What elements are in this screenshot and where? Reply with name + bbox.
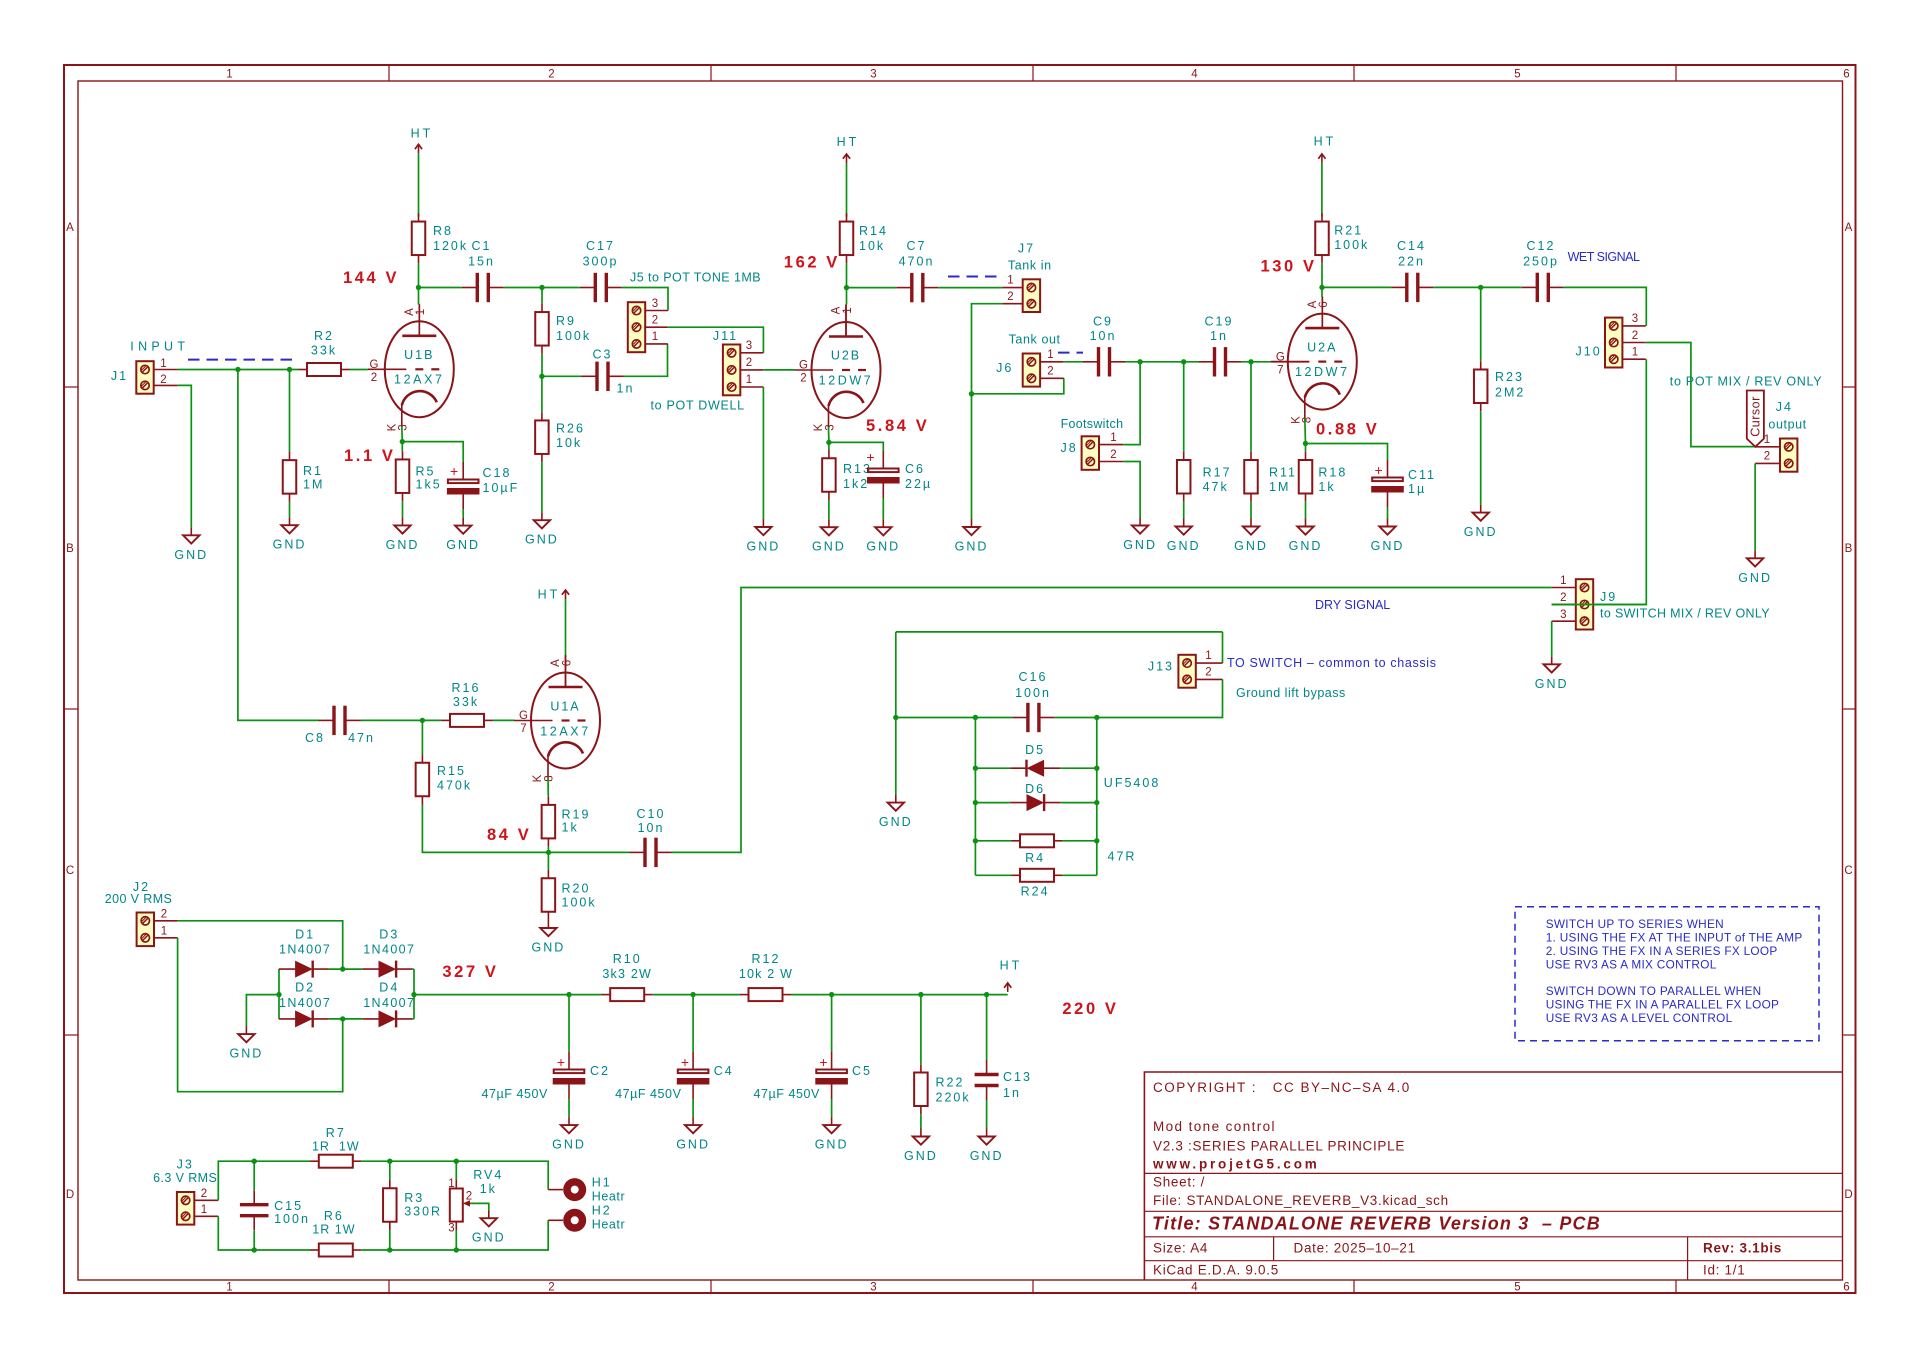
svg-text:Ground lift bypass: Ground lift bypass xyxy=(1236,686,1346,700)
wire R10 to R12 xyxy=(653,994,740,996)
svg-text:330R: 330R xyxy=(404,1205,442,1219)
svg-text:R10: R10 xyxy=(613,952,642,966)
svg-text:J3: J3 xyxy=(177,1158,194,1172)
wire R19 to node xyxy=(547,847,549,853)
wire J13 pin1 to chassis top xyxy=(1222,632,1224,663)
resistor R4 xyxy=(1012,834,1063,847)
wire R18 to ground xyxy=(1305,502,1307,519)
pin J13.1 xyxy=(1196,662,1223,664)
svg-text:1: 1 xyxy=(160,358,167,370)
svg-text:R7: R7 xyxy=(326,1126,346,1140)
pin J5.2 xyxy=(644,326,668,328)
svg-text:47µF 450V: 47µF 450V xyxy=(615,1087,681,1101)
wire to R24 xyxy=(975,874,1012,876)
wire R22 to ground xyxy=(920,1114,922,1128)
wire R12 to HT xyxy=(791,994,1008,996)
svg-text:D2: D2 xyxy=(295,981,315,995)
diode D6 xyxy=(1010,794,1060,811)
ground R26 xyxy=(525,512,559,547)
triode U2B xyxy=(795,305,881,428)
wire rail to R3 xyxy=(389,1161,391,1180)
triode U2A xyxy=(1271,296,1357,419)
svg-text:R19: R19 xyxy=(562,808,591,822)
svg-text:J13: J13 xyxy=(1148,660,1174,674)
svg-text:22µ: 22µ xyxy=(905,477,932,491)
svg-text:10µF: 10µF xyxy=(483,481,520,495)
ground J11 xyxy=(747,519,781,554)
svg-text:C: C xyxy=(1844,865,1853,877)
svg-text:Rev: 3.1bis: Rev: 3.1bis xyxy=(1703,1241,1782,1256)
svg-text:U1A: U1A xyxy=(550,700,580,714)
wire node to C10 xyxy=(549,851,630,853)
wire R5 to ground xyxy=(402,501,404,517)
junction input to R1 branch xyxy=(287,367,292,372)
resistor R18 xyxy=(1299,452,1313,502)
svg-text:1.1 V: 1.1 V xyxy=(344,447,396,465)
wire J5 pin2 to J11 pin3 xyxy=(668,327,764,353)
svg-text:33k: 33k xyxy=(311,344,337,358)
svg-text:0.88 V: 0.88 V xyxy=(1316,421,1379,439)
pin U1B anode 1 xyxy=(418,305,420,336)
ground J8 xyxy=(1123,518,1157,553)
pin J1.2 xyxy=(154,384,178,386)
ground R5 xyxy=(386,517,420,552)
svg-text:A: A xyxy=(1845,222,1854,234)
svg-text:10k: 10k xyxy=(556,436,582,450)
svg-text:Date: 2025–10–21: Date: 2025–10–21 xyxy=(1294,1241,1416,1256)
svg-text:4: 4 xyxy=(1191,1282,1198,1294)
svg-text:HT: HT xyxy=(411,127,434,141)
junction R9 C3 R26 xyxy=(539,374,544,379)
resistor R1 xyxy=(283,452,297,502)
svg-text:8: 8 xyxy=(1302,416,1314,423)
junction 327V xyxy=(411,992,416,997)
svg-text:2: 2 xyxy=(161,909,168,921)
svg-text:GND: GND xyxy=(1289,539,1323,553)
svg-text:GND: GND xyxy=(386,538,420,552)
wire to R4 xyxy=(975,840,1012,842)
wire node to R5 xyxy=(401,442,403,452)
wire C13 to ground xyxy=(986,1100,988,1129)
pin J3.1 xyxy=(194,1215,218,1217)
svg-text:Heatr: Heatr xyxy=(592,1218,626,1232)
svg-text:2: 2 xyxy=(201,1188,208,1200)
wire C19 to U2A grid xyxy=(1241,361,1271,363)
wire node to C17 xyxy=(542,287,580,289)
pin J5.1 xyxy=(644,343,668,345)
svg-text:to SWITCH MIX / REV ONLY: to SWITCH MIX / REV ONLY xyxy=(1600,607,1770,621)
wire node to C12 xyxy=(1481,286,1522,288)
svg-text:3: 3 xyxy=(870,1282,877,1294)
junction R4 left xyxy=(973,838,978,843)
svg-text:C: C xyxy=(66,865,75,877)
wire bridge right column xyxy=(413,969,415,1019)
svg-text:K: K xyxy=(532,774,544,783)
capacitor C15 xyxy=(240,1190,269,1230)
wire D2 to D4 xyxy=(329,1018,362,1020)
svg-text:UF5408: UF5408 xyxy=(1104,776,1160,790)
svg-text:B: B xyxy=(66,543,75,555)
svg-text:2: 2 xyxy=(1560,592,1567,604)
resistor R11 xyxy=(1244,452,1258,502)
ground J4 xyxy=(1738,550,1772,585)
wire C1 to node xyxy=(504,287,542,289)
wire J8 pin1 to tank net xyxy=(1123,362,1140,445)
svg-text:1n: 1n xyxy=(1210,329,1228,343)
wire C11 to ground xyxy=(1387,507,1389,519)
svg-text:GND: GND xyxy=(970,1149,1004,1163)
junction RV4 bottom xyxy=(454,1247,459,1252)
wire C14 to node xyxy=(1433,286,1480,288)
pin J8.2 xyxy=(1099,461,1123,463)
svg-text:GND: GND xyxy=(747,540,781,554)
wire C4 to ground xyxy=(692,1099,694,1117)
junction RV4 top xyxy=(454,1159,459,1164)
svg-text:1n: 1n xyxy=(617,382,635,396)
svg-text:1: 1 xyxy=(1047,349,1054,361)
svg-text:GND: GND xyxy=(1738,571,1772,585)
wire C9 to C19 xyxy=(1125,361,1199,363)
connector J5 xyxy=(628,302,645,352)
wire 327V rail to R10 xyxy=(414,994,602,996)
svg-text:R16: R16 xyxy=(452,681,481,695)
svg-text:HT: HT xyxy=(538,588,561,602)
svg-text:3: 3 xyxy=(870,69,877,81)
wire R14 to node 162V xyxy=(846,263,848,287)
svg-text:47n: 47n xyxy=(348,731,375,745)
wire node to R26 xyxy=(541,376,543,412)
svg-text:R2: R2 xyxy=(314,329,334,343)
wire J9 pin3 to ground xyxy=(1551,621,1553,656)
wire node to J6 pin2 xyxy=(972,378,1064,394)
svg-text:1n: 1n xyxy=(1003,1086,1021,1100)
svg-text:J9: J9 xyxy=(1600,590,1617,604)
wire node to R13 xyxy=(828,442,830,450)
pin U2A anode 6 xyxy=(1321,297,1323,328)
ground C13 xyxy=(970,1129,1004,1164)
wire C12 to J10 pin3 xyxy=(1564,287,1647,326)
svg-text:+: + xyxy=(1375,462,1384,478)
svg-text:1k: 1k xyxy=(562,821,579,835)
wire C2 to ground xyxy=(568,1099,570,1117)
resistor R19 xyxy=(542,797,556,847)
svg-text:R14: R14 xyxy=(859,224,888,238)
wire node to C2 xyxy=(568,995,570,1052)
wire node to U2A anode xyxy=(1321,287,1323,297)
dashed highlight tank-out net xyxy=(1058,352,1083,354)
resistor R22 xyxy=(914,1064,928,1114)
wire node to C3 xyxy=(542,375,582,377)
svg-text:1k2: 1k2 xyxy=(843,477,869,491)
svg-text:12DW7: 12DW7 xyxy=(1295,365,1350,379)
note box switch instructions xyxy=(1515,907,1819,1041)
wire R16 to U1A grid xyxy=(493,719,515,721)
wire R1 to ground xyxy=(289,502,291,517)
svg-text:D: D xyxy=(1844,1189,1853,1201)
power HT supply xyxy=(1004,983,1011,992)
wire block right column xyxy=(1096,718,1098,876)
wire U2A cathode to node xyxy=(1304,419,1307,444)
connector J2 xyxy=(137,913,154,947)
svg-text:GND: GND xyxy=(525,533,559,547)
connector J9 xyxy=(1576,579,1593,629)
capacitor C4 xyxy=(677,1052,710,1099)
svg-text:12AX7: 12AX7 xyxy=(394,373,445,387)
diode D1 xyxy=(279,961,329,978)
capacitor C19 xyxy=(1199,347,1241,376)
svg-text:1N4007: 1N4007 xyxy=(279,942,331,956)
wire node to R9 xyxy=(541,288,543,304)
junction R3 bottom xyxy=(387,1247,392,1252)
wire J10 pin1 to J9 pin2 xyxy=(1552,359,1647,604)
svg-text:J6: J6 xyxy=(996,361,1013,375)
svg-text:3: 3 xyxy=(448,1223,455,1235)
svg-text:R8: R8 xyxy=(433,224,453,238)
wire R26 to ground xyxy=(541,462,543,512)
pin J11.2 xyxy=(740,369,764,371)
triode U1B xyxy=(368,304,454,427)
junction cathode 5.84V xyxy=(826,440,831,445)
svg-text:100k: 100k xyxy=(562,896,597,910)
resistor R23 xyxy=(1474,361,1488,411)
svg-text:6: 6 xyxy=(1843,69,1850,81)
svg-text:+: + xyxy=(819,1054,828,1070)
svg-text:47µF 450V: 47µF 450V xyxy=(754,1087,820,1101)
svg-text:J8: J8 xyxy=(1061,441,1078,455)
svg-text:1: 1 xyxy=(226,69,233,81)
ground tank xyxy=(955,519,989,554)
svg-text:2: 2 xyxy=(652,315,659,327)
wire chassis top xyxy=(896,631,1223,633)
wire J7 pin2 down to ground xyxy=(972,304,1003,519)
ground C5 xyxy=(815,1117,849,1152)
wire node to C4 xyxy=(692,995,694,1052)
wire J2 pin1 to bridge bottom xyxy=(178,938,343,1092)
ground C18 xyxy=(446,518,480,553)
svg-text:6: 6 xyxy=(1318,300,1330,307)
svg-text:GND: GND xyxy=(552,1138,586,1152)
svg-text:J1: J1 xyxy=(111,369,128,383)
svg-text:C4: C4 xyxy=(714,1064,734,1078)
ground R22 xyxy=(904,1129,938,1164)
svg-text:220 V: 220 V xyxy=(1062,1000,1118,1018)
wire R24 to column xyxy=(1062,874,1097,876)
junction R3 top xyxy=(387,1159,392,1164)
svg-text:2: 2 xyxy=(371,372,378,384)
ground R17 xyxy=(1167,519,1201,554)
svg-text:Footswitch: Footswitch xyxy=(1061,417,1124,431)
diode D3 xyxy=(362,961,412,978)
svg-text:120k: 120k xyxy=(433,239,468,253)
svg-text:15n: 15n xyxy=(468,255,495,269)
ground C2 xyxy=(552,1117,586,1152)
resistor R5 xyxy=(396,451,410,501)
resistor R12 xyxy=(740,988,791,1001)
svg-text:J11: J11 xyxy=(713,329,738,343)
svg-text:R6: R6 xyxy=(324,1209,344,1223)
junction R11 branch xyxy=(1248,359,1253,364)
wire node to R17 xyxy=(1183,362,1185,452)
svg-text:100n: 100n xyxy=(1015,686,1051,700)
wire block left column xyxy=(974,718,976,876)
svg-text:33k: 33k xyxy=(453,695,479,709)
svg-text:K: K xyxy=(386,423,398,432)
pin J11.1 xyxy=(740,386,764,388)
wire J8 pin2 to ground xyxy=(1123,462,1140,518)
svg-text:300p: 300p xyxy=(583,255,619,269)
svg-text:R18: R18 xyxy=(1318,466,1347,480)
pin J9.1 xyxy=(1552,587,1576,589)
svg-text:8: 8 xyxy=(544,774,556,781)
pin J1.1 xyxy=(154,369,178,371)
pin J3.2 xyxy=(194,1199,218,1201)
wire node to C18 xyxy=(402,442,463,462)
resistor R8 xyxy=(412,213,426,263)
capacitor C16 xyxy=(1012,703,1054,732)
wire HT to R21 xyxy=(1321,163,1323,217)
resistor R2 xyxy=(299,363,350,376)
svg-text:R20: R20 xyxy=(562,882,591,896)
svg-text:100k: 100k xyxy=(1334,238,1369,252)
wire C10 dry signal to J9 pin1 xyxy=(672,588,1552,853)
title block frame xyxy=(1144,1072,1842,1280)
wire J3 pin1 to heater bottom rail xyxy=(218,1216,310,1250)
svg-text:Heatr: Heatr xyxy=(592,1190,626,1204)
svg-text:C16: C16 xyxy=(1019,670,1048,684)
svg-text:USING THE FX IN A PARALLEL FX: USING THE FX IN A PARALLEL FX LOOP xyxy=(1546,997,1780,1011)
junction C8 R16 R15 xyxy=(420,718,425,723)
svg-text:GND: GND xyxy=(532,941,566,955)
capacitor C5 xyxy=(815,1052,848,1099)
svg-text:K: K xyxy=(1290,415,1302,424)
svg-text:6: 6 xyxy=(1843,1282,1850,1294)
wire C6 to ground xyxy=(882,498,884,519)
junction 84V xyxy=(546,850,551,855)
svg-text:C1: C1 xyxy=(472,239,492,253)
wire node to R23 xyxy=(1480,287,1482,361)
svg-text:3: 3 xyxy=(398,423,410,430)
svg-text:H1: H1 xyxy=(592,1176,612,1190)
pin J13.2 xyxy=(1196,678,1223,680)
svg-text:R3: R3 xyxy=(404,1191,424,1205)
svg-text:C14: C14 xyxy=(1397,239,1426,253)
wire C3 to J5 pin1 xyxy=(624,344,668,376)
svg-text:5: 5 xyxy=(1514,1282,1521,1294)
svg-text:C8: C8 xyxy=(305,731,325,745)
svg-text:1: 1 xyxy=(1560,575,1567,587)
svg-text:470k: 470k xyxy=(437,779,472,793)
pin J2.2 xyxy=(154,920,178,922)
junction bridge left xyxy=(276,992,281,997)
svg-text:Id: 1/1: Id: 1/1 xyxy=(1703,1263,1745,1278)
ground RV4 xyxy=(472,1210,506,1245)
junction C1 C17 R9 xyxy=(539,285,544,290)
wire node to C6 xyxy=(829,442,883,451)
wire J11 pin1 to ground xyxy=(762,387,764,519)
svg-text:R15: R15 xyxy=(437,764,466,778)
wire C16 to J13 pin2 xyxy=(1054,679,1222,717)
svg-text:K: K xyxy=(813,423,825,432)
capacitor C11 xyxy=(1371,460,1404,507)
power HT stage3 xyxy=(1318,154,1325,163)
svg-text:1N4007: 1N4007 xyxy=(279,996,331,1010)
svg-text:220k: 220k xyxy=(936,1091,971,1105)
wire J9 pin2 crossing xyxy=(1552,604,1647,606)
wire C7 to J7 pin1 xyxy=(938,287,1002,289)
wire node to C5 xyxy=(831,995,833,1052)
resistor R6 xyxy=(310,1244,361,1257)
svg-text:1: 1 xyxy=(226,1282,233,1294)
svg-text:GND: GND xyxy=(1371,539,1405,553)
cursor flag xyxy=(1747,391,1764,447)
pin J10.2 xyxy=(1622,342,1646,344)
junction block left top xyxy=(973,715,978,720)
svg-text:130 V: 130 V xyxy=(1261,258,1317,276)
svg-text:Cursor: Cursor xyxy=(1749,396,1763,437)
capacitor C2 xyxy=(553,1052,586,1099)
svg-text:www.projetG5.com: www.projetG5.com xyxy=(1152,1157,1320,1172)
resistor R17 xyxy=(1177,452,1191,502)
junction C14 C12 R23 xyxy=(1478,285,1483,290)
resistor R26 xyxy=(535,412,549,462)
connector J8 xyxy=(1082,436,1099,470)
junction tank ground xyxy=(969,391,974,396)
svg-text:3: 3 xyxy=(746,340,753,352)
wire bridge to ground xyxy=(246,995,279,1027)
pin J9.3 xyxy=(1552,620,1576,622)
connector J7 xyxy=(1023,279,1040,312)
pin J7.2 xyxy=(1002,303,1022,305)
svg-text:6: 6 xyxy=(561,659,573,666)
pin J6.1 xyxy=(1040,361,1064,363)
connector J1 xyxy=(136,361,153,394)
wire node to R11 xyxy=(1250,362,1252,452)
capacitor C13 xyxy=(975,1060,999,1100)
junction bridge ac2 xyxy=(340,1016,345,1021)
svg-text:100n: 100n xyxy=(274,1212,310,1226)
ground C11 xyxy=(1371,519,1405,554)
svg-text:5.84 V: 5.84 V xyxy=(866,417,929,435)
svg-text:GND: GND xyxy=(1234,539,1268,553)
capacitor C18 xyxy=(447,462,480,509)
wire J2 pin2 to bridge top xyxy=(178,921,343,969)
pin J8.1 xyxy=(1099,444,1123,446)
resistor R16 xyxy=(442,714,493,727)
svg-text:1: 1 xyxy=(652,331,659,343)
svg-text:U1B: U1B xyxy=(404,348,434,362)
svg-text:A: A xyxy=(66,222,75,234)
svg-text:12AX7: 12AX7 xyxy=(540,724,591,738)
wire node to C14 xyxy=(1322,286,1391,288)
svg-text:7: 7 xyxy=(1277,364,1284,376)
ground bridge xyxy=(230,1026,264,1061)
svg-text:R23: R23 xyxy=(1495,370,1524,384)
pin J6.2 xyxy=(1040,377,1064,379)
junction node 162V xyxy=(844,285,849,290)
svg-text:1k5: 1k5 xyxy=(416,478,442,492)
wire bridge left column xyxy=(278,969,280,1019)
svg-text:C17: C17 xyxy=(586,239,615,253)
wire node to U2B anode xyxy=(846,288,848,305)
svg-text:10k 2 W: 10k 2 W xyxy=(739,967,793,981)
diode D4 xyxy=(362,1010,412,1027)
svg-text:1R 1W: 1R 1W xyxy=(312,1223,355,1237)
svg-text:D3: D3 xyxy=(379,927,399,941)
ground J1 xyxy=(174,527,208,562)
capacitor C3 xyxy=(582,362,624,391)
svg-text:C13: C13 xyxy=(1003,1070,1032,1084)
svg-text:D4: D4 xyxy=(379,981,399,995)
